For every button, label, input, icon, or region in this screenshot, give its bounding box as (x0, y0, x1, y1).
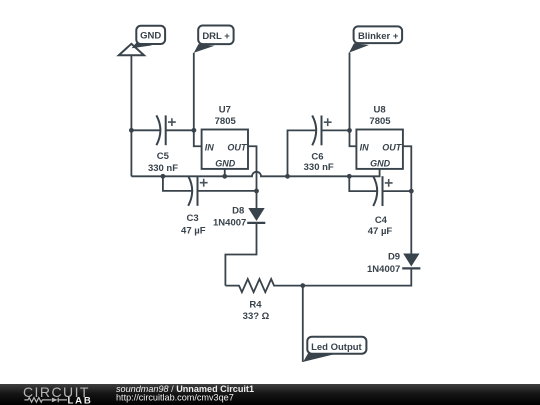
svg-text:33? Ω: 33? Ω (243, 311, 270, 322)
wire U7 OUT (248, 146, 257, 191)
svg-text:Led Output: Led Output (311, 342, 362, 353)
net flag DRL + (194, 26, 234, 53)
svg-text:GND: GND (140, 30, 161, 41)
svg-text:330 nF: 330 nF (304, 162, 334, 173)
ground (119, 44, 144, 56)
svg-text:C6: C6 (311, 151, 323, 162)
wire U8 GND pin (349, 169, 379, 176)
wire D8 cathode to R4 (225, 223, 256, 286)
capacitor C6 (288, 116, 350, 177)
wire U8 OUT (403, 146, 411, 191)
svg-text:47 µF: 47 µF (368, 226, 393, 237)
svg-text:D9: D9 (388, 252, 400, 263)
capacitor C3 (163, 176, 257, 206)
svg-text:OUT: OUT (227, 143, 248, 153)
svg-text:C5: C5 (157, 151, 170, 162)
svg-text:C3: C3 (187, 213, 199, 224)
wire Blinker down (349, 53, 351, 131)
svg-text:GND: GND (215, 159, 236, 169)
wire ground vertical (130, 55, 132, 176)
wire DRL down (193, 53, 195, 131)
svg-text:GND: GND (370, 159, 391, 169)
footer credit text (116, 384, 254, 402)
capacitor C5 (131, 115, 194, 145)
wire bottom rail (131, 172, 349, 176)
wire U8 IN (350, 130, 357, 146)
svg-text:47 µF: 47 µF (181, 226, 206, 237)
svg-text:IN: IN (205, 143, 215, 153)
svg-text:http://circuitlab.com/cmv3qe7: http://circuitlab.com/cmv3qe7 (116, 392, 234, 402)
IC U7 7805 (202, 105, 248, 169)
wire U7 GND pin (224, 169, 226, 176)
net flag GND (132, 26, 166, 49)
resistor R4 (225, 279, 302, 322)
net flag Blinker + (349, 26, 402, 52)
svg-text:C4: C4 (375, 215, 388, 226)
svg-text:LAB: LAB (68, 395, 93, 405)
wire R4 to Led Output (302, 286, 304, 362)
CircuitLab logo (23, 384, 93, 405)
svg-text:330 nF: 330 nF (148, 163, 178, 174)
wire U7 IN (194, 130, 202, 146)
svg-text:1N4007: 1N4007 (367, 264, 400, 275)
IC U8 7805 (356, 105, 403, 169)
diode D8 (213, 191, 265, 229)
node junction dots (129, 128, 414, 288)
svg-text:D8: D8 (232, 206, 244, 217)
wire D9 cathode to R4 (303, 268, 412, 285)
svg-text:Blinker +: Blinker + (358, 31, 399, 42)
svg-text:U7: U7 (219, 105, 231, 116)
net flag Led Output (303, 337, 366, 362)
svg-text:OUT: OUT (382, 143, 403, 153)
diode D9 (367, 191, 420, 275)
svg-text:U8: U8 (374, 105, 386, 116)
svg-text:7805: 7805 (369, 116, 391, 127)
capacitor C4 (349, 176, 411, 206)
svg-text:7805: 7805 (215, 116, 237, 127)
svg-text:R4: R4 (249, 299, 262, 310)
svg-text:1N4007: 1N4007 (213, 217, 246, 228)
svg-text:DRL +: DRL + (202, 31, 230, 42)
svg-text:IN: IN (360, 143, 370, 153)
footer bar (0, 384, 540, 405)
